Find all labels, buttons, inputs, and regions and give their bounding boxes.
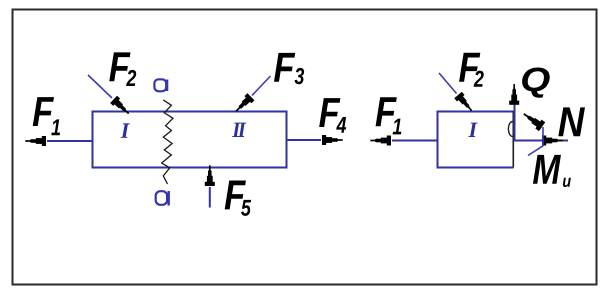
force F1 wire (right figure): [392, 140, 438, 142]
bending moment tail line: [528, 127, 543, 156]
force F2 arrowhead: [110, 96, 132, 117]
shear force Q wire: [514, 101, 516, 141]
label Q: [522, 68, 550, 98]
label F5: [225, 181, 251, 216]
force F5 wire (left figure): [209, 187, 211, 208]
label M_u: [533, 155, 571, 187]
label F4: [319, 98, 346, 133]
label N: [558, 107, 585, 136]
label F2 (right figure): [459, 53, 484, 87]
bending moment arc: [508, 122, 512, 137]
force F3 wire (left figure): [252, 76, 271, 96]
label I (right figure): [468, 123, 477, 137]
label II (right part of bar): [232, 123, 241, 137]
force F1 arrowhead: [25, 136, 46, 146]
force F2 wire (left figure): [88, 75, 112, 98]
label F1: [33, 97, 60, 135]
section line a-a zigzag: [162, 100, 173, 184]
normal force N wire: [514, 140, 568, 142]
force F3 arrowhead: [233, 93, 255, 115]
label F2: [109, 52, 136, 86]
force F2 arrowhead (right figure): [454, 92, 475, 114]
force F5 arrowhead: [205, 165, 215, 186]
label I (left part of bar): [121, 123, 130, 137]
force F1 wire (left figure): [47, 140, 93, 142]
bending moment arrowhead: [521, 109, 546, 131]
label a (top of section): [154, 79, 167, 91]
label F3: [274, 53, 304, 84]
right bar body rectangle (blue sides): [438, 112, 515, 168]
right bar cut face (black edge): [512, 111, 514, 168]
force F1 arrowhead (right figure): [370, 136, 391, 146]
label a (bottom of section): [156, 191, 169, 206]
force F4 wire (left figure): [287, 139, 322, 141]
shear force Q arrowhead: [509, 84, 519, 105]
left bar body rectangle: [93, 112, 287, 168]
label F1 (right figure): [376, 97, 402, 134]
normal force N arrowhead: [542, 136, 563, 146]
force F2 wire (right figure): [439, 73, 457, 94]
force F4 arrowhead: [322, 135, 343, 145]
